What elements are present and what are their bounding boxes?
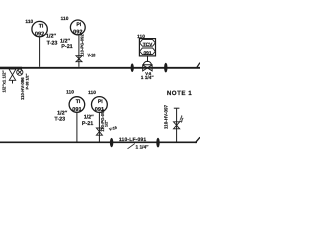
hexagon TCV	[140, 40, 156, 47]
control valve V-8 body	[143, 65, 152, 71]
svg-text:091: 091	[143, 50, 151, 56]
instrument PI-092	[70, 20, 85, 35]
svg-text:T-23: T-23	[47, 40, 58, 46]
reducer ellipse on bottom line left	[110, 138, 113, 147]
svg-text:P-21: P-21	[82, 121, 93, 127]
line break symbol top right	[197, 63, 200, 68]
valve V-19 on PI-091 line	[96, 128, 102, 135]
instrument box TCV-091	[139, 39, 155, 56]
instrument TI-092	[32, 21, 47, 36]
svg-text:110-HV-097: 110-HV-097	[164, 104, 169, 129]
svg-text:110: 110	[137, 34, 145, 40]
svg-text:110: 110	[88, 90, 96, 96]
svg-text:1 1/4″: 1 1/4″	[136, 144, 150, 150]
wire: top main line heavy left segment	[0, 67, 22, 69]
reducer ellipse on bottom line right	[156, 138, 159, 148]
reducer ellipse left of V-8	[131, 63, 134, 72]
control valve V-8 actuator dome	[143, 61, 151, 64]
svg-text:1/2″: 1/2″	[46, 34, 56, 40]
hexagon 091	[140, 48, 156, 55]
right branch: capped vent line	[176, 109, 178, 142]
svg-text:1 1/4″: 1 1/4″	[141, 75, 155, 81]
wire: top main process line	[0, 67, 200, 69]
svg-text:PI: PI	[98, 99, 103, 105]
svg-text:V-18: V-18	[88, 54, 96, 58]
svg-text:110-PG-092: 110-PG-092	[80, 34, 85, 57]
svg-text:110: 110	[25, 19, 33, 25]
svg-text:110: 110	[61, 16, 69, 22]
capped circle fitting on left branch	[17, 69, 23, 75]
wire: PI-091 drop line	[98, 112, 100, 142]
wire: left branch stub	[12, 80, 14, 83]
instrument PI-091	[92, 97, 108, 113]
left branch: drain valve below main line	[9, 69, 16, 80]
wire: TI-092 drop line	[39, 37, 41, 67]
leader line for 1 1/4"	[128, 144, 135, 149]
svg-text:TI: TI	[39, 24, 44, 30]
svg-text:1/2″: 1/2″	[104, 120, 108, 127]
wire: PI-092 drop line	[78, 35, 80, 67]
line break symbol bottom right	[195, 137, 200, 143]
svg-text:1/2″x1 1/2″: 1/2″x1 1/2″	[2, 70, 7, 92]
wire: TI-091 drop line	[76, 112, 78, 142]
valve V-18 on PI-092 line	[76, 56, 82, 62]
wire: TCV stem	[147, 56, 149, 62]
svg-text:T-23: T-23	[54, 116, 65, 122]
svg-text:091: 091	[72, 107, 81, 113]
reducer ellipse right of V-8	[164, 63, 167, 73]
instrument TI-091	[69, 97, 85, 113]
svg-text:P-21: P-21	[61, 44, 72, 50]
svg-text:TI: TI	[76, 99, 81, 105]
svg-text:110: 110	[66, 90, 74, 96]
svg-text:110-LF-091: 110-LF-091	[119, 137, 146, 143]
svg-text:TCV: TCV	[143, 42, 153, 48]
wire: bottom main process line	[0, 141, 197, 143]
svg-text:110-HV-096: 110-HV-096	[20, 77, 25, 100]
valve V-20 on right branch	[174, 122, 180, 129]
svg-text:NOTE 1: NOTE 1	[167, 90, 192, 97]
svg-text:PI: PI	[76, 22, 81, 28]
svg-text:P-38 1/2″: P-38 1/2″	[26, 73, 30, 89]
svg-text:1/2″: 1/2″	[84, 115, 94, 121]
svg-text:092: 092	[35, 31, 44, 37]
